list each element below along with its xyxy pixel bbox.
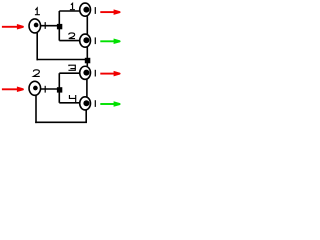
junction square signal 2	[57, 87, 62, 92]
junction square ground 1	[85, 58, 91, 64]
pin tick input1	[44, 22, 46, 29]
arrow output3 red	[100, 71, 120, 77]
label input2 digit 2	[33, 70, 39, 77]
connector OUT2 ring	[80, 34, 91, 47]
ground tick c4	[85, 110, 87, 122]
ground wire block2	[35, 121, 87, 123]
junction square signal 1	[57, 24, 62, 29]
ground tick input1	[36, 33, 38, 60]
wire to output4	[59, 102, 80, 104]
wire bus block1	[58, 11, 60, 41]
ground tick junction-c3	[86, 63, 88, 67]
label output4 digit 4	[69, 95, 75, 103]
wire to output1	[59, 10, 80, 12]
connector OUT1 dot	[83, 7, 89, 13]
ground tick input2	[35, 95, 37, 123]
pin tick output2	[94, 37, 96, 44]
label output3 digit 3	[68, 65, 75, 70]
label output2 digit 2	[69, 33, 75, 39]
arrow output1 red	[100, 9, 120, 15]
pin tick output1	[94, 7, 96, 14]
connector OUT4 dot	[83, 100, 89, 106]
connector OUT3 ring	[80, 66, 91, 79]
ground tick c3-c4	[86, 79, 88, 97]
connector OUT3 dot	[83, 70, 89, 76]
label input1 digit 1	[35, 8, 40, 15]
connector IN2 dot	[33, 86, 38, 91]
wire input2 signal	[41, 88, 60, 90]
connector OUT2 dot	[83, 37, 89, 43]
pin tick output3	[94, 70, 96, 77]
ground tick c1-c2	[86, 16, 88, 34]
ground tick c2-junction	[86, 47, 88, 58]
arrow output2 green	[100, 39, 120, 45]
label output1 digit 1	[70, 3, 75, 9]
connector IN2 ring	[29, 81, 41, 95]
arrow input2 red	[2, 87, 24, 93]
pin tick input2	[44, 86, 46, 93]
connector OUT1 ring	[80, 3, 91, 16]
wire to output2	[59, 40, 80, 42]
connector IN1 ring	[29, 19, 41, 33]
wire input1 signal	[41, 25, 60, 27]
ground wire block1	[37, 59, 86, 61]
pin tick output4	[94, 100, 96, 107]
wire to output3	[59, 72, 80, 74]
connector OUT4 ring	[80, 97, 91, 110]
arrow output4 green	[100, 101, 120, 107]
wire bus block2	[58, 73, 60, 103]
connector IN1 dot	[34, 23, 39, 28]
arrow input1 red	[2, 24, 24, 30]
